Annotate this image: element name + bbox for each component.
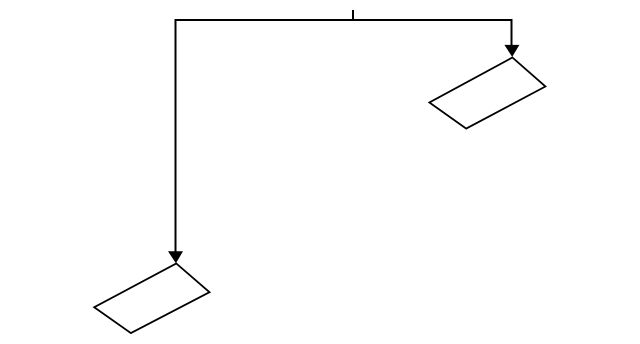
wire: top horizontal connector: [176, 19, 512, 21]
arrowhead on left connector: [168, 251, 183, 263]
shape: right rotated parallelogram: [429, 58, 545, 129]
wire: right vertical connector: [511, 19, 513, 46]
wire: upward stem tick at connector midpoint: [352, 10, 354, 20]
wire: left vertical connector: [175, 19, 177, 252]
arrowhead on right connector: [504, 45, 519, 57]
shape: left rotated parallelogram: [94, 264, 209, 334]
